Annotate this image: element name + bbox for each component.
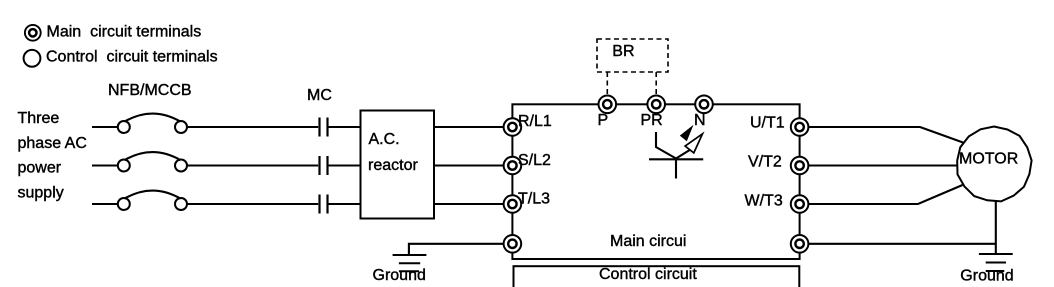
wire: emitter diagonal (676, 150, 691, 159)
svg-text:reactor: reactor (368, 157, 418, 174)
contactor MC pole 1 (320, 118, 328, 137)
svg-text:Ground: Ground (373, 267, 426, 284)
svg-text:NFB/MCCB: NFB/MCCB (108, 82, 192, 99)
legend symbol: control circuit terminal (24, 50, 41, 67)
breaker NFB pole 3 (118, 191, 187, 210)
wire: phase R breaker to MC contact (187, 126, 319, 128)
svg-text:N: N (694, 112, 706, 129)
wire: reactor to T/L3 (434, 203, 504, 205)
svg-text:T/L3: T/L3 (518, 191, 550, 208)
wire: reactor to R/L1 (434, 126, 504, 128)
inverter main box (512, 104, 799, 259)
A.C. reactor box (361, 111, 435, 219)
terminal S/L2 (504, 157, 522, 175)
svg-text:Control circuit: Control circuit (599, 266, 697, 283)
wire: lead below base (675, 159, 677, 178)
wire: phase S MC to reactor (328, 164, 362, 166)
wire: phase S breaker to MC contact (187, 164, 319, 166)
contactor MC pole 2 (320, 156, 328, 175)
wire: reactor to S/L2 (434, 164, 504, 166)
wire: phase T breaker to MC contact (187, 203, 319, 205)
svg-text:phase AC: phase AC (18, 135, 87, 152)
breaker NFB pole 1 (118, 114, 187, 133)
motor M1 (957, 127, 1031, 202)
wire: phase T MC to reactor (328, 203, 362, 205)
svg-text:U/T1: U/T1 (750, 115, 785, 132)
terminal U/T1 (791, 118, 809, 136)
breaker NFB pole 2 (118, 152, 187, 171)
dashed wire: BR to terminal PR (655, 72, 657, 95)
svg-text:Three: Three (18, 110, 60, 127)
wire: W/T3 to motor (808, 185, 962, 204)
svg-text:Main circuit terminals: Main circuit terminals (47, 24, 202, 41)
svg-text:BR: BR (612, 43, 634, 60)
svg-text:S/L2: S/L2 (518, 152, 551, 169)
svg-text:PR: PR (641, 112, 663, 129)
wire: U/T1 to motor (808, 127, 963, 143)
wire: left ground terminal to ground (409, 244, 504, 255)
svg-text:P: P (598, 112, 609, 129)
label: Three phase AC power supply (18, 110, 87, 202)
contactor MC pole 3 (320, 195, 328, 214)
terminal N (695, 96, 713, 114)
terminal: left ground (earth) on inverter (504, 235, 522, 253)
filled arrowhead (680, 125, 694, 141)
svg-text:W/T3: W/T3 (745, 193, 783, 210)
terminal T/L3 (504, 195, 522, 213)
svg-text:V/T2: V/T2 (748, 154, 782, 171)
BR box (brake resistor, dashed) (597, 39, 668, 72)
wire: phase S from supply to breaker (92, 164, 118, 166)
wire: right ground terminal to ground junction (808, 243, 995, 245)
wire: V/T2 to motor (808, 164, 957, 166)
svg-text:supply: supply (18, 185, 64, 202)
terminal V/T2 (791, 157, 809, 175)
terminal P (599, 96, 617, 114)
ground symbol left (393, 255, 427, 271)
svg-text:Main circui: Main circui (610, 233, 686, 250)
wire: motor frame to ground (995, 202, 997, 255)
wire: base bar (649, 158, 703, 160)
wire: collector lead from PR side (656, 132, 676, 159)
terminal W/T3 (791, 195, 809, 213)
wire: phase T from supply to breaker (92, 203, 118, 205)
ground symbol right (979, 254, 1013, 271)
wire: phase R MC to reactor (328, 126, 362, 128)
svg-text:R/L1: R/L1 (518, 113, 552, 130)
terminal PR (647, 96, 665, 114)
terminal R/L1 (504, 118, 522, 136)
wire: phase R from supply to breaker (92, 126, 118, 128)
svg-text:A.C.: A.C. (369, 131, 400, 148)
control circuit box (514, 266, 800, 287)
terminal: right ground (earth) on inverter (791, 235, 809, 253)
svg-text:MC: MC (307, 87, 332, 104)
svg-text:Control circuit terminals: Control circuit terminals (46, 49, 218, 66)
svg-text:Ground: Ground (960, 268, 1013, 285)
legend symbol: main circuit terminal (25, 25, 41, 41)
svg-text:MOTOR: MOTOR (959, 151, 1018, 168)
emitter open arrowhead (685, 134, 702, 153)
svg-text:power: power (18, 160, 62, 177)
brake transistor symbol (649, 125, 703, 179)
dashed wire: BR to terminal P (606, 72, 608, 95)
